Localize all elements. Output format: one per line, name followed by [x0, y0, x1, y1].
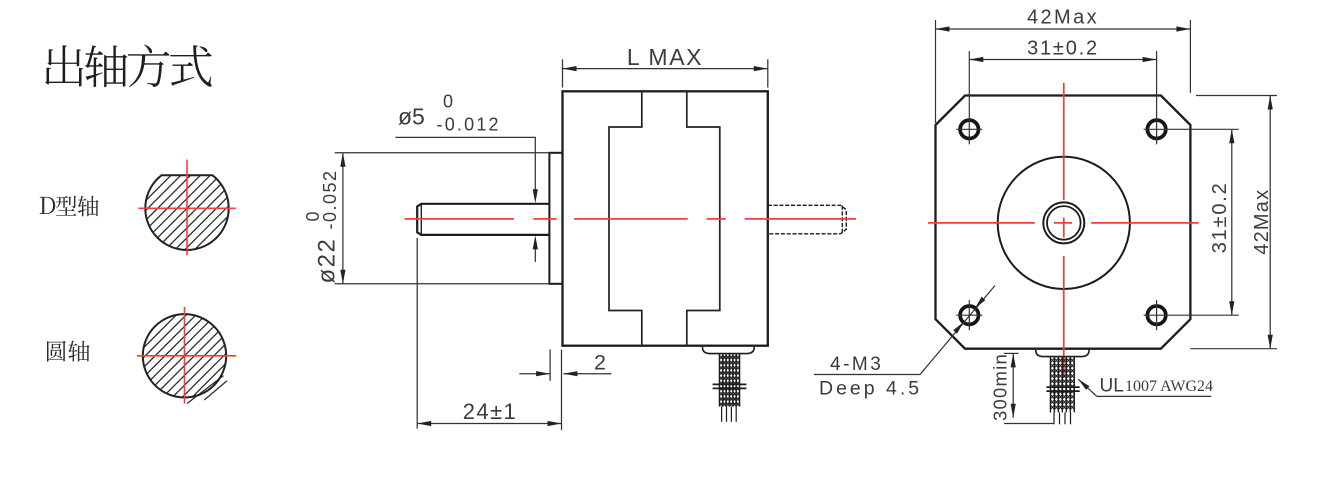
D-shaft centerline vertical — [186, 160, 188, 256]
svg-text:31±0.2: 31±0.2 — [1027, 38, 1099, 60]
dim ø5 lower arrow — [534, 239, 536, 263]
shaft chamfer line — [420, 204, 422, 234]
dim 31±0.2 top line — [969, 59, 1156, 61]
round-shaft centerline horizontal — [137, 355, 236, 357]
svg-text:4-M3: 4-M3 — [830, 354, 883, 375]
cable bands (front view) — [1046, 386, 1079, 388]
D-shaft centerline horizontal — [138, 207, 235, 209]
leader to mounting hole — [920, 286, 995, 375]
wire bundle (front view) — [1049, 357, 1051, 413]
rear shaft end chamfer dashed line — [841, 206, 843, 234]
wire grommet (side view) — [703, 347, 755, 354]
shaft hole outer ring — [1043, 202, 1084, 243]
svg-text:300min: 300min — [990, 353, 1011, 421]
mounting hole top-right — [1147, 120, 1165, 138]
centerline vertical (front view, red) — [1063, 83, 1065, 200]
svg-text:24±1: 24±1 — [463, 399, 517, 424]
svg-text:42Max: 42Max — [1251, 189, 1273, 255]
dim 24±1 line — [417, 423, 561, 425]
round-shaft centerline vertical — [184, 307, 186, 404]
dim 300min line — [1012, 353, 1014, 417]
label UL underline — [1097, 395, 1211, 397]
shaft (side view) — [417, 204, 549, 235]
label D型轴 — [40, 197, 56, 214]
svg-text:L MAX: L MAX — [627, 44, 703, 70]
svg-text:1007 AWG24: 1007 AWG24 — [1125, 378, 1213, 395]
svg-text:2: 2 — [594, 351, 606, 375]
svg-text:ø22: ø22 — [314, 238, 341, 284]
D-shaft section outline — [145, 175, 228, 250]
centerline horizontal (front view, red) — [928, 222, 1035, 224]
wire bundle (side view) — [718, 354, 720, 407]
svg-text:-0.052: -0.052 — [320, 169, 340, 229]
dim 42Max top extension lines — [935, 20, 937, 123]
svg-text:-0.012: -0.012 — [437, 115, 501, 135]
svg-text:Deep 4.5: Deep 4.5 — [819, 378, 922, 400]
dim 2 extension line — [549, 350, 551, 381]
dim 42Max right extension lines — [1196, 95, 1277, 97]
dim 31±0.2 right line — [1231, 129, 1233, 315]
dim 42Max right line — [1269, 96, 1271, 349]
svg-text:ø5: ø5 — [398, 104, 425, 130]
svg-text:31±0.2: 31±0.2 — [1209, 181, 1231, 253]
internal contour left — [609, 91, 642, 345]
svg-text:42Max: 42Max — [1027, 7, 1099, 29]
dim ø22 0/-0.052 text (rotated) — [303, 169, 341, 283]
dim 2 arrows and tails — [519, 373, 550, 375]
motor face outline (chamfered square) — [936, 96, 1191, 349]
svg-text:0: 0 — [443, 92, 453, 112]
dim ø5 leader — [396, 137, 536, 199]
title 出轴方式 — [45, 45, 83, 86]
dim L MAX extension lines — [562, 59, 564, 87]
label 4-M3 underline — [814, 374, 920, 376]
rear shaft (hidden, dashed) — [768, 205, 847, 234]
dim ø22 line — [342, 153, 344, 284]
centerline (side view, red) — [405, 218, 515, 220]
mounting hole bottom-right — [1147, 306, 1165, 324]
internal contour right — [687, 91, 720, 345]
boss bottom extension line — [335, 283, 550, 285]
label 圆轴 — [47, 341, 66, 362]
dim 300min extension lines — [1004, 352, 1019, 354]
front boss — [549, 153, 562, 284]
cable bands (side view) — [713, 383, 747, 385]
round-shaft stray hatch marks — [187, 376, 224, 404]
shaft hole inner ring — [1047, 206, 1081, 240]
mounting hole bottom-left — [960, 306, 978, 324]
wire tails (side view) — [721, 407, 723, 422]
pilot circle (ø22 boss) — [998, 157, 1130, 289]
svg-text:UL: UL — [1100, 376, 1124, 397]
round-shaft section outline — [143, 314, 226, 397]
motor body (side view) — [563, 91, 768, 345]
mounting hole top-left — [960, 120, 978, 138]
dim L MAX line — [563, 68, 768, 70]
dim 31±0.2 top extension aid — [968, 50, 970, 52]
dim 42Max top line — [936, 28, 1191, 30]
boss top extension line — [335, 152, 550, 154]
wire grommet (front view) — [1036, 350, 1089, 357]
dim 24±1 extension lines — [416, 238, 418, 429]
label UL leader arrow — [1078, 379, 1097, 396]
wire tails (front view) — [1053, 412, 1055, 424]
